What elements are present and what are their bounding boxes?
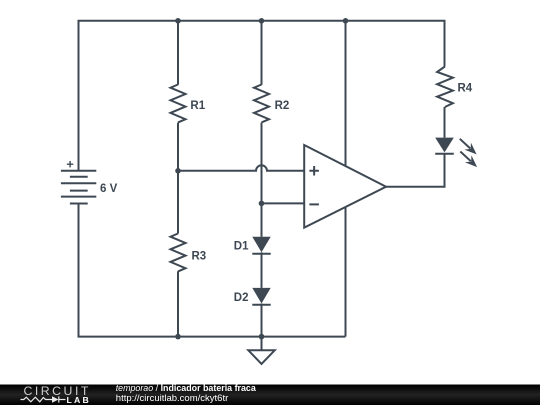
- svg-text:LAB: LAB: [67, 395, 91, 405]
- svg-text:6 V: 6 V: [100, 183, 118, 195]
- svg-text:D1: D1: [234, 240, 249, 252]
- svg-text:http://circuitlab.com/ckyt6tr: http://circuitlab.com/ckyt6tr: [116, 393, 228, 404]
- svg-text:D2: D2: [234, 292, 249, 304]
- svg-text:R1: R1: [190, 100, 205, 112]
- svg-text:R4: R4: [458, 83, 473, 95]
- svg-text:temporao / Indicador bateria f: temporao / Indicador bateria fraca: [116, 383, 256, 393]
- svg-text:R2: R2: [275, 100, 290, 112]
- svg-text:R3: R3: [192, 250, 207, 262]
